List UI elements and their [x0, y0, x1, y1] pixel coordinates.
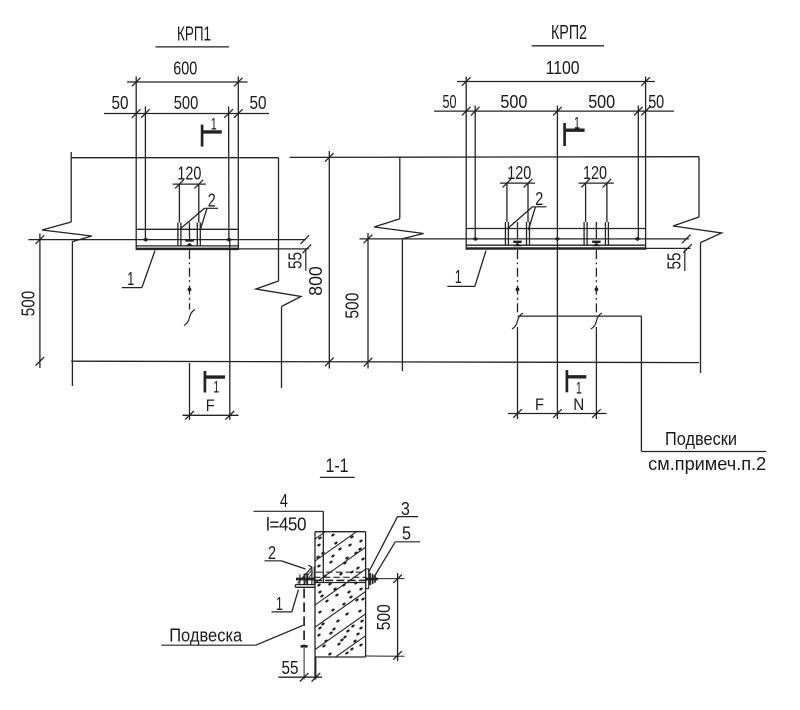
svg-text:Подвески: Подвески	[665, 429, 737, 449]
svg-text:2: 2	[268, 543, 276, 563]
svg-text:5: 5	[402, 524, 411, 544]
svg-text:500: 500	[374, 604, 394, 630]
svg-text:Подвеска: Подвеска	[169, 626, 243, 646]
svg-text:500: 500	[588, 92, 615, 112]
svg-text:F: F	[206, 396, 215, 415]
svg-text:55: 55	[282, 658, 299, 678]
svg-text:55: 55	[665, 253, 685, 270]
svg-text:120: 120	[507, 163, 531, 183]
svg-text:50: 50	[443, 92, 457, 112]
svg-text:500: 500	[174, 93, 199, 113]
svg-text:800: 800	[306, 266, 326, 296]
svg-text:120: 120	[177, 163, 201, 183]
svg-text:500: 500	[19, 291, 39, 317]
svg-text:500: 500	[500, 92, 527, 112]
svg-text:2: 2	[535, 189, 543, 209]
svg-text:600: 600	[173, 59, 197, 79]
svg-text:1: 1	[211, 114, 217, 133]
svg-text:120: 120	[583, 163, 607, 183]
svg-text:3: 3	[401, 499, 410, 519]
svg-text:1: 1	[127, 269, 134, 289]
svg-text:1: 1	[276, 594, 283, 614]
svg-text:F: F	[535, 395, 544, 414]
svg-text:55: 55	[286, 252, 306, 269]
svg-text:N: N	[573, 395, 584, 414]
svg-text:см.примеч.п.2: см.примеч.п.2	[648, 454, 766, 474]
svg-text:1: 1	[455, 267, 462, 287]
svg-text:1: 1	[576, 379, 582, 398]
svg-text:1: 1	[574, 114, 580, 133]
svg-text:l=450: l=450	[266, 515, 306, 535]
svg-text:КРП2: КРП2	[551, 21, 587, 44]
svg-text:50: 50	[112, 93, 129, 113]
svg-text:КРП1: КРП1	[177, 23, 211, 46]
svg-text:1-1: 1-1	[326, 455, 349, 477]
svg-text:500: 500	[343, 293, 363, 319]
svg-text:50: 50	[648, 92, 664, 112]
svg-text:1: 1	[213, 377, 219, 396]
svg-text:4: 4	[280, 491, 288, 511]
svg-text:50: 50	[250, 93, 267, 113]
svg-text:1100: 1100	[546, 58, 580, 78]
